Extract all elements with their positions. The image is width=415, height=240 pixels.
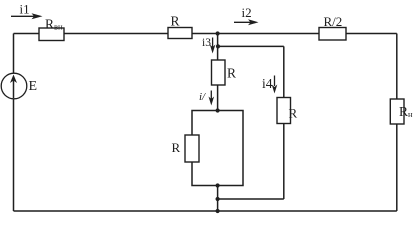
- junction dot loop bottom: [216, 183, 220, 187]
- svg-text:R: R: [227, 66, 236, 81]
- svg-text:i3: i3: [202, 37, 211, 49]
- svg-text:R/2: R/2: [324, 14, 343, 29]
- arrow i5: [209, 91, 215, 106]
- arrow i4: [272, 76, 278, 94]
- arrow i3: [210, 38, 216, 54]
- resistor R (loop left side): [185, 135, 199, 162]
- junction dot bottom bus: [216, 209, 220, 213]
- svg-text:Rвн: Rвн: [45, 17, 63, 32]
- junction dot i4 rejoin: [216, 197, 220, 201]
- svg-text:i/: i/: [199, 91, 206, 103]
- resistor Rvn (top left): [39, 28, 64, 41]
- svg-text:i2: i2: [242, 5, 252, 20]
- arrow i2: [234, 19, 259, 25]
- wire: left rail: [13, 34, 15, 212]
- wire: parallel loop rectangle: [192, 111, 243, 186]
- wire: top horizontal bus: [14, 33, 397, 35]
- voltage source E: [1, 73, 27, 99]
- node A junction dot (top): [216, 31, 220, 35]
- svg-text:R: R: [289, 106, 298, 121]
- svg-text:i1: i1: [20, 2, 30, 17]
- arrow i1: [11, 13, 43, 19]
- svg-text:i4: i4: [262, 76, 273, 91]
- resistor R/2 (top right): [319, 28, 346, 41]
- svg-text:Rн: Rн: [399, 104, 413, 119]
- resistor Rn (right rail): [390, 99, 404, 124]
- wire: middle branch vertical (node A down to loop): [217, 34, 219, 111]
- junction dot loop top: [216, 108, 220, 112]
- resistor R (middle branch): [212, 60, 226, 85]
- resistor R (top middle): [168, 28, 192, 39]
- wire: i4 branch vertical: [283, 46, 285, 199]
- wire: i4 branch bottom horizontal: [218, 198, 284, 200]
- resistor R (i4 branch): [277, 98, 291, 124]
- wire: branch from node B to i4 branch: [218, 45, 284, 47]
- svg-text:R: R: [172, 140, 181, 155]
- svg-text:R: R: [171, 14, 180, 29]
- wire: loop bottom to bus: [217, 186, 219, 212]
- svg-text:E: E: [29, 79, 38, 94]
- wire: bottom bus: [14, 210, 397, 212]
- node B junction dot (branch split): [216, 44, 220, 48]
- wire: right rail: [396, 34, 398, 212]
